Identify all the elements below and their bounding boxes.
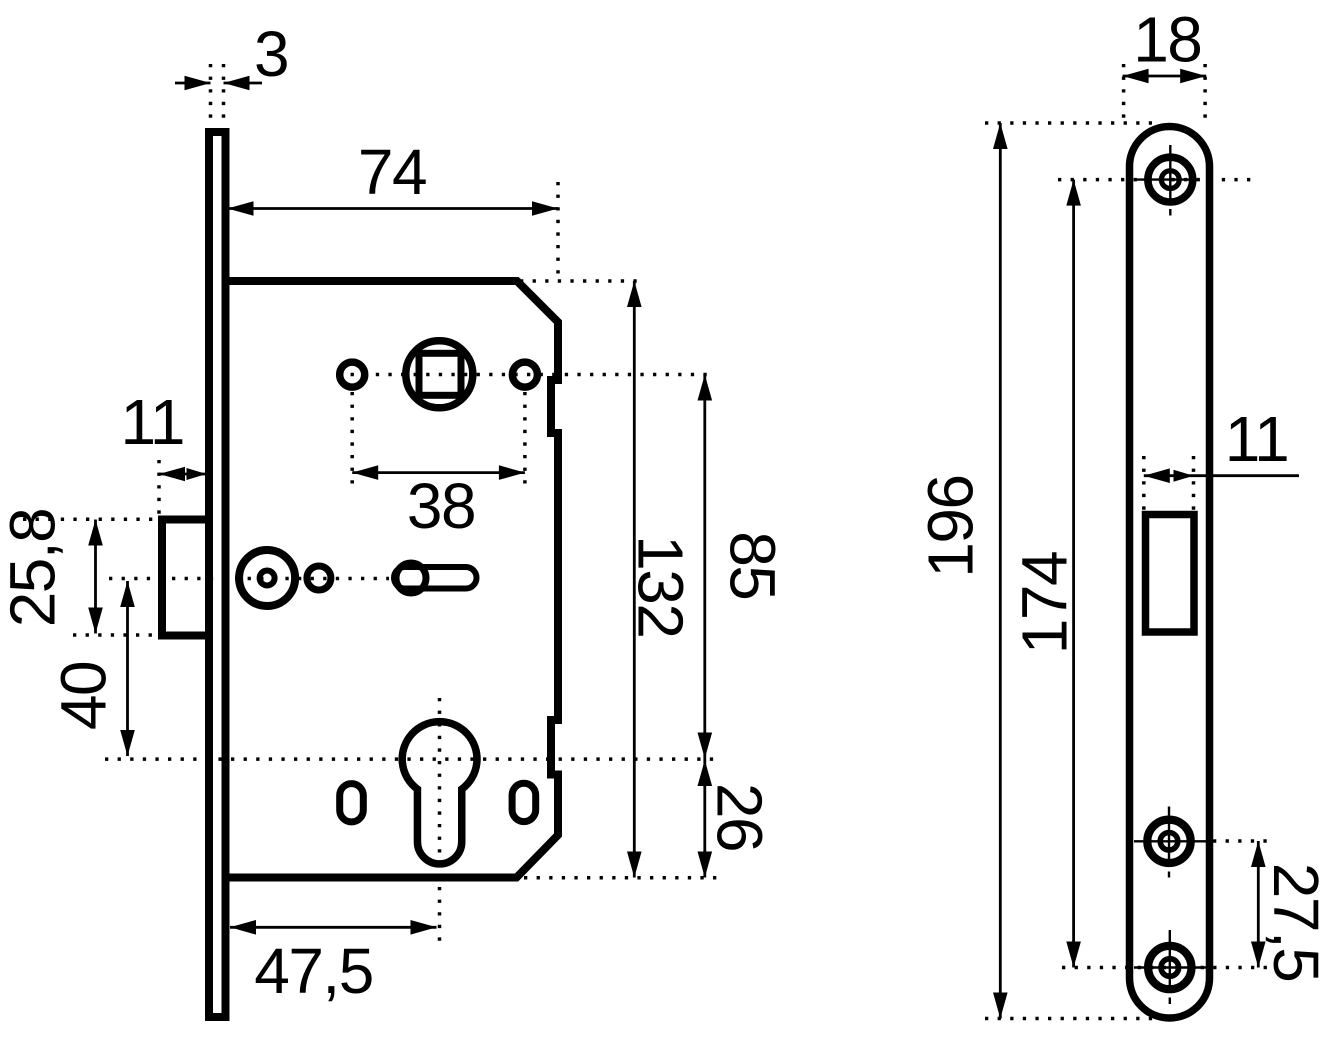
faceplate front view [1130,127,1210,1019]
dimension 27.5 [1257,841,1260,968]
ext line 196-top [985,121,1152,125]
dimension 3 line-right [224,82,263,85]
svg-text:74: 74 [358,136,426,208]
faceplate side view [209,132,226,1017]
ext line 11-left-view [157,460,161,516]
bottom screw hole [1148,946,1191,989]
dimension 11 left-view [159,473,207,476]
centerline latch-pin [109,577,389,581]
ext line 18-left [1122,64,1126,120]
svg-text:47,5: 47,5 [254,935,373,1007]
svg-text:18: 18 [1133,3,1201,75]
ext line 27.5-top [1213,839,1272,843]
ext line latch-bottom [73,633,158,637]
centerline cylinder-vertical [438,698,442,941]
ext line 196-bottom [985,1017,1173,1021]
top screw crosshair [1169,145,1171,204]
svg-text:85: 85 [717,531,789,599]
svg-text:11: 11 [120,386,183,458]
centerline spindle [338,373,714,377]
svg-text:26: 26 [703,783,775,851]
svg-text:3: 3 [254,18,288,90]
ext line 74-right [556,182,560,278]
dimension 40 [126,581,129,756]
ext line 174-bottom [1062,966,1272,970]
middle screw crosshair [1168,807,1170,867]
oval hole left [340,784,364,822]
dimension 38 [352,471,525,474]
svg-text:40: 40 [47,662,119,730]
ext line 11-right-left [1142,456,1146,510]
pin inner circle [260,571,275,586]
middle screw hole [1147,820,1190,863]
slot circle [396,563,426,593]
ext line latch-top [23,518,158,522]
slot opening [394,567,477,589]
dimension 132 [633,281,636,878]
centerline top-screw [1058,178,1256,182]
small hole right of pin [307,566,331,590]
ext line 18-right [1203,64,1207,120]
ext line 132-bottom [524,876,718,880]
dimension 85-26 line [703,375,706,878]
ext line 11-right-right [1192,456,1196,510]
svg-text:11: 11 [1225,403,1288,475]
ext line 38-right [523,392,527,486]
svg-text:196: 196 [915,475,987,577]
spindle circle [406,341,473,408]
ext line 132-top [520,279,646,283]
handle screw hole left [340,362,365,387]
latch bolt side view [162,520,209,636]
dimension 74 [228,207,559,210]
lock body outline [226,281,559,878]
svg-text:27,5: 27,5 [1260,863,1332,982]
dimension 18 [1123,75,1207,78]
ext line 3-right [222,64,226,126]
euro cylinder keyhole [402,722,477,864]
dimension 25.8 [94,520,97,634]
pin outer circle [239,550,295,606]
dimension 11 right-view [1144,474,1299,477]
svg-text:132: 132 [625,535,697,637]
ext line 3-left [209,64,213,126]
oval hole right [512,783,536,821]
spindle square hole [419,353,461,395]
dimension 196 [999,123,1002,1019]
dimension 174 [1072,180,1075,968]
ext line 38-left [350,392,354,486]
dimension 3 line-left [175,82,211,85]
bottom screw crosshair [1169,930,1171,992]
top screw hole [1148,157,1193,202]
svg-text:38: 38 [407,470,475,542]
svg-text:174: 174 [1008,552,1080,654]
svg-text:25,8: 25,8 [0,509,68,628]
dimension 47.5 [230,926,437,929]
latch hole front view [1146,515,1195,633]
centerline cylinder [105,757,714,761]
handle screw hole right [512,362,537,387]
